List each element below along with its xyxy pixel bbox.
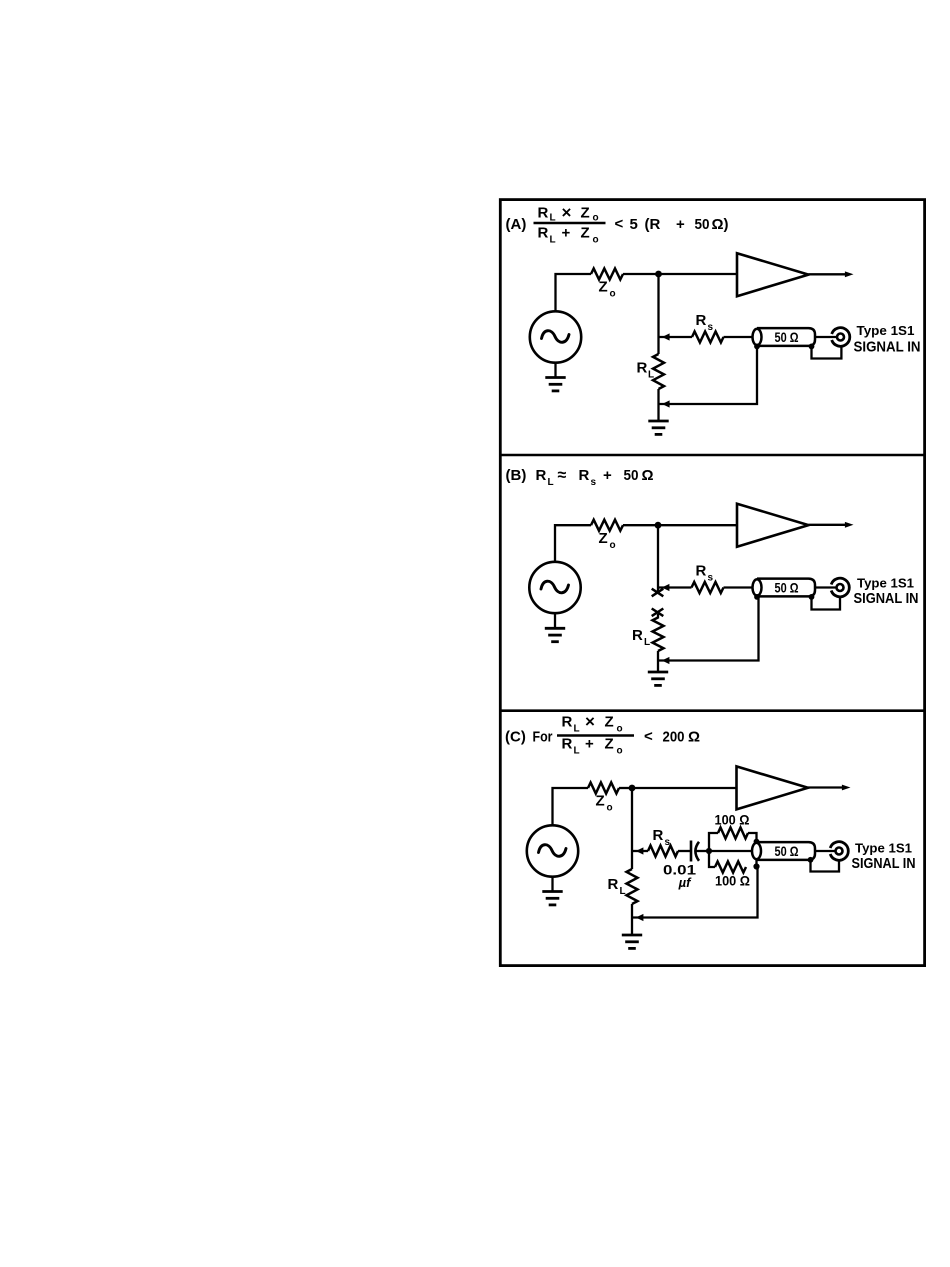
wire coax to connector (814, 336, 836, 338)
label Zo (599, 530, 616, 551)
svg-text:µf: µf (678, 875, 692, 890)
signal source V1 (530, 311, 581, 362)
svg-text:Ω: Ω (688, 729, 700, 746)
wire arrow to Rs (658, 586, 692, 588)
svg-text:Type 1S1: Type 1S1 (857, 323, 915, 338)
svg-text:50: 50 (624, 467, 639, 484)
svg-text:R: R (538, 225, 549, 242)
panel separator B/C (499, 709, 925, 712)
break X upper (652, 589, 664, 597)
junction lower branch (753, 863, 759, 869)
svg-text:R: R (608, 876, 619, 893)
wire Rs to capacitor (678, 850, 691, 852)
formula (A) (506, 203, 729, 246)
arrow from Rs into node (636, 847, 644, 854)
label Rs (653, 827, 671, 848)
svg-text:<: < (615, 216, 624, 233)
svg-text:L: L (644, 637, 650, 648)
resistor 100 ohm lower (715, 862, 746, 873)
wire node to amplifier (632, 787, 737, 789)
label Zo (596, 793, 613, 814)
svg-text:+: + (676, 216, 685, 233)
amplifier output wire (808, 785, 851, 791)
connector Type 1S1 (830, 842, 848, 861)
svg-text:s: s (708, 573, 714, 584)
label Rs (696, 563, 714, 584)
junction coax bottom-left (754, 344, 760, 350)
coax cable (753, 579, 816, 597)
capacitor 0.01uf (691, 841, 699, 862)
wire Zo to node (623, 524, 658, 526)
junction coax shield (808, 857, 814, 863)
svg-text:50: 50 (695, 216, 710, 233)
svg-text:R: R (562, 736, 573, 753)
svg-text:5: 5 (630, 216, 638, 233)
label Zo (599, 279, 616, 300)
amplifier A2 (737, 504, 809, 547)
svg-text:s: s (591, 477, 597, 488)
svg-text:<: < (644, 728, 653, 745)
junction coax top-left (754, 839, 760, 845)
svg-text:Z: Z (581, 225, 590, 242)
arrow into ground node (662, 657, 670, 664)
wire RL to ground node (657, 651, 659, 672)
break X lower (652, 609, 664, 617)
svg-text:L: L (574, 724, 580, 735)
wire node down to break (657, 525, 659, 591)
svg-text:Type 1S1: Type 1S1 (857, 576, 914, 591)
svg-text:R: R (632, 627, 643, 644)
svg-text:(R: (R (645, 216, 661, 233)
node junction A (655, 271, 662, 278)
svg-text:×: × (585, 712, 595, 731)
svg-text:For: For (533, 729, 553, 746)
wire arrow to Rs (632, 850, 648, 852)
svg-text:+: + (562, 225, 571, 242)
wire source to Zo (556, 274, 592, 311)
figure frame (500, 200, 924, 966)
svg-text:o: o (610, 289, 616, 300)
svg-text:50 Ω: 50 Ω (775, 844, 799, 859)
svg-text:L: L (574, 746, 580, 757)
wire capacitor to node (696, 850, 710, 852)
return wire from coax to ground node (659, 346, 758, 404)
label RL (637, 360, 655, 381)
svg-text:o: o (593, 235, 599, 246)
svg-text:(A): (A) (506, 216, 527, 233)
arrow from Rs into break (662, 584, 670, 591)
wire Rs to coax (724, 336, 756, 338)
svg-text:Type 1S1: Type 1S1 (855, 841, 912, 856)
svg-text:Z: Z (605, 736, 614, 753)
node junction B (655, 522, 662, 529)
coax cable (753, 328, 816, 346)
svg-text:R: R (562, 714, 573, 731)
amplifier A3 (737, 766, 809, 809)
svg-text:+: + (585, 736, 594, 753)
resistor Zo (591, 269, 623, 280)
wire source to Zo (553, 788, 589, 826)
amplifier A1 (737, 253, 809, 296)
wire Zo to node (623, 273, 659, 275)
wire break to RL (657, 614, 659, 619)
connector shield wire (812, 346, 842, 359)
node junction C (629, 785, 636, 792)
arrow from Rs into node (662, 333, 670, 340)
svg-text:R: R (653, 827, 664, 844)
svg-text:SIGNAL IN: SIGNAL IN (854, 339, 921, 356)
svg-text:R: R (579, 467, 590, 484)
wire source to ground (554, 613, 556, 628)
svg-text:50 Ω: 50 Ω (775, 330, 799, 345)
wire Rs to coax (724, 586, 756, 588)
svg-text:R: R (696, 312, 707, 329)
resistor Rs (692, 582, 724, 593)
wire RL to ground node (631, 904, 633, 935)
coax cable (752, 842, 815, 860)
connector Type 1S1 (832, 328, 850, 347)
wire source to ground (551, 877, 553, 892)
wire source to ground (554, 363, 556, 378)
ground under source (542, 892, 562, 905)
svg-text:R: R (538, 205, 549, 222)
ground under RL (648, 672, 668, 685)
junction coax bottom-right (809, 344, 815, 350)
ground under RL (648, 421, 668, 434)
svg-text:Ω): Ω) (712, 216, 729, 233)
svg-text:≈: ≈ (558, 467, 567, 484)
svg-text:R: R (696, 563, 707, 580)
svg-text:L: L (648, 370, 654, 381)
wire node to amplifier (659, 273, 738, 275)
arrow into ground node (636, 914, 644, 921)
svg-text:+: + (603, 467, 612, 484)
connector Type 1S1 (831, 578, 849, 597)
svg-text:100 Ω: 100 Ω (715, 812, 750, 828)
ground under source (545, 378, 565, 391)
svg-text:200: 200 (663, 729, 685, 746)
svg-text:s: s (708, 322, 714, 333)
lower branch to coax bottom (755, 858, 757, 867)
svg-text:L: L (548, 477, 554, 488)
wire coax to connector (814, 586, 836, 588)
svg-text:Z: Z (596, 793, 605, 810)
wire node to amplifier (658, 524, 737, 526)
resistor Zo (588, 783, 619, 794)
signal source V2 (529, 562, 580, 613)
svg-text:(C): (C) (505, 729, 526, 746)
svg-text:s: s (665, 837, 671, 848)
lower branch wire (709, 851, 715, 867)
svg-text:R: R (536, 467, 547, 484)
arrow into ground node (662, 400, 670, 407)
wire RL to ground node (657, 389, 659, 421)
wire coax to connector (814, 850, 835, 852)
svg-text:Z: Z (605, 714, 614, 731)
junction coax bottom-left (754, 594, 760, 600)
svg-text:Z: Z (599, 279, 608, 296)
formula (B) (506, 467, 654, 488)
svg-text:L: L (620, 886, 626, 897)
wire node down to RL (631, 788, 633, 869)
svg-text:100 Ω: 100 Ω (715, 873, 750, 889)
resistor Zo (591, 520, 623, 531)
wire arrow to Rs (659, 336, 693, 338)
ground under RL (622, 935, 642, 948)
svg-text:R: R (637, 360, 648, 377)
svg-text:50 Ω: 50 Ω (775, 580, 799, 595)
upper branch wire (709, 833, 718, 851)
label 0.01 uf (663, 862, 696, 891)
label RL (632, 627, 650, 648)
resistor 100 ohm upper (718, 828, 748, 839)
connector shield wire (811, 860, 840, 872)
return wire from coax to ground node (658, 597, 759, 661)
center wire node to coax (709, 850, 753, 852)
resistor RL (653, 354, 664, 389)
resistor Rs (692, 332, 724, 343)
formula (C) (505, 712, 700, 757)
amplifier output wire (809, 271, 854, 277)
svg-text:SIGNAL IN: SIGNAL IN (852, 855, 916, 872)
junction coax bottom-right (809, 594, 815, 600)
resistor RL (627, 869, 638, 904)
svg-text:o: o (617, 724, 623, 735)
svg-text:L: L (550, 235, 556, 246)
svg-text:o: o (607, 803, 613, 814)
wire source to Zo (555, 525, 591, 562)
return wire from coax to ground node (632, 868, 758, 918)
label Rs (696, 312, 714, 333)
svg-text:×: × (562, 203, 572, 222)
connector shield wire (812, 597, 841, 610)
svg-text:Z: Z (599, 530, 608, 547)
label RL (608, 876, 626, 897)
resistor RL (653, 618, 664, 652)
wire node down to RL (657, 274, 659, 354)
upper branch to coax top (748, 833, 757, 841)
wire Zo to node (619, 787, 632, 789)
resistor Rs (648, 846, 678, 857)
svg-text:Z: Z (581, 205, 590, 222)
svg-text:o: o (617, 746, 623, 757)
amplifier output wire (809, 522, 854, 528)
svg-text:Ω: Ω (642, 467, 654, 484)
ground under source (545, 628, 565, 641)
signal source V3 (527, 825, 578, 876)
node cap junction (706, 848, 712, 854)
panel separator A/B (499, 454, 925, 457)
svg-text:o: o (610, 540, 616, 551)
svg-text:(B): (B) (506, 467, 527, 484)
svg-text:SIGNAL IN: SIGNAL IN (854, 590, 919, 607)
